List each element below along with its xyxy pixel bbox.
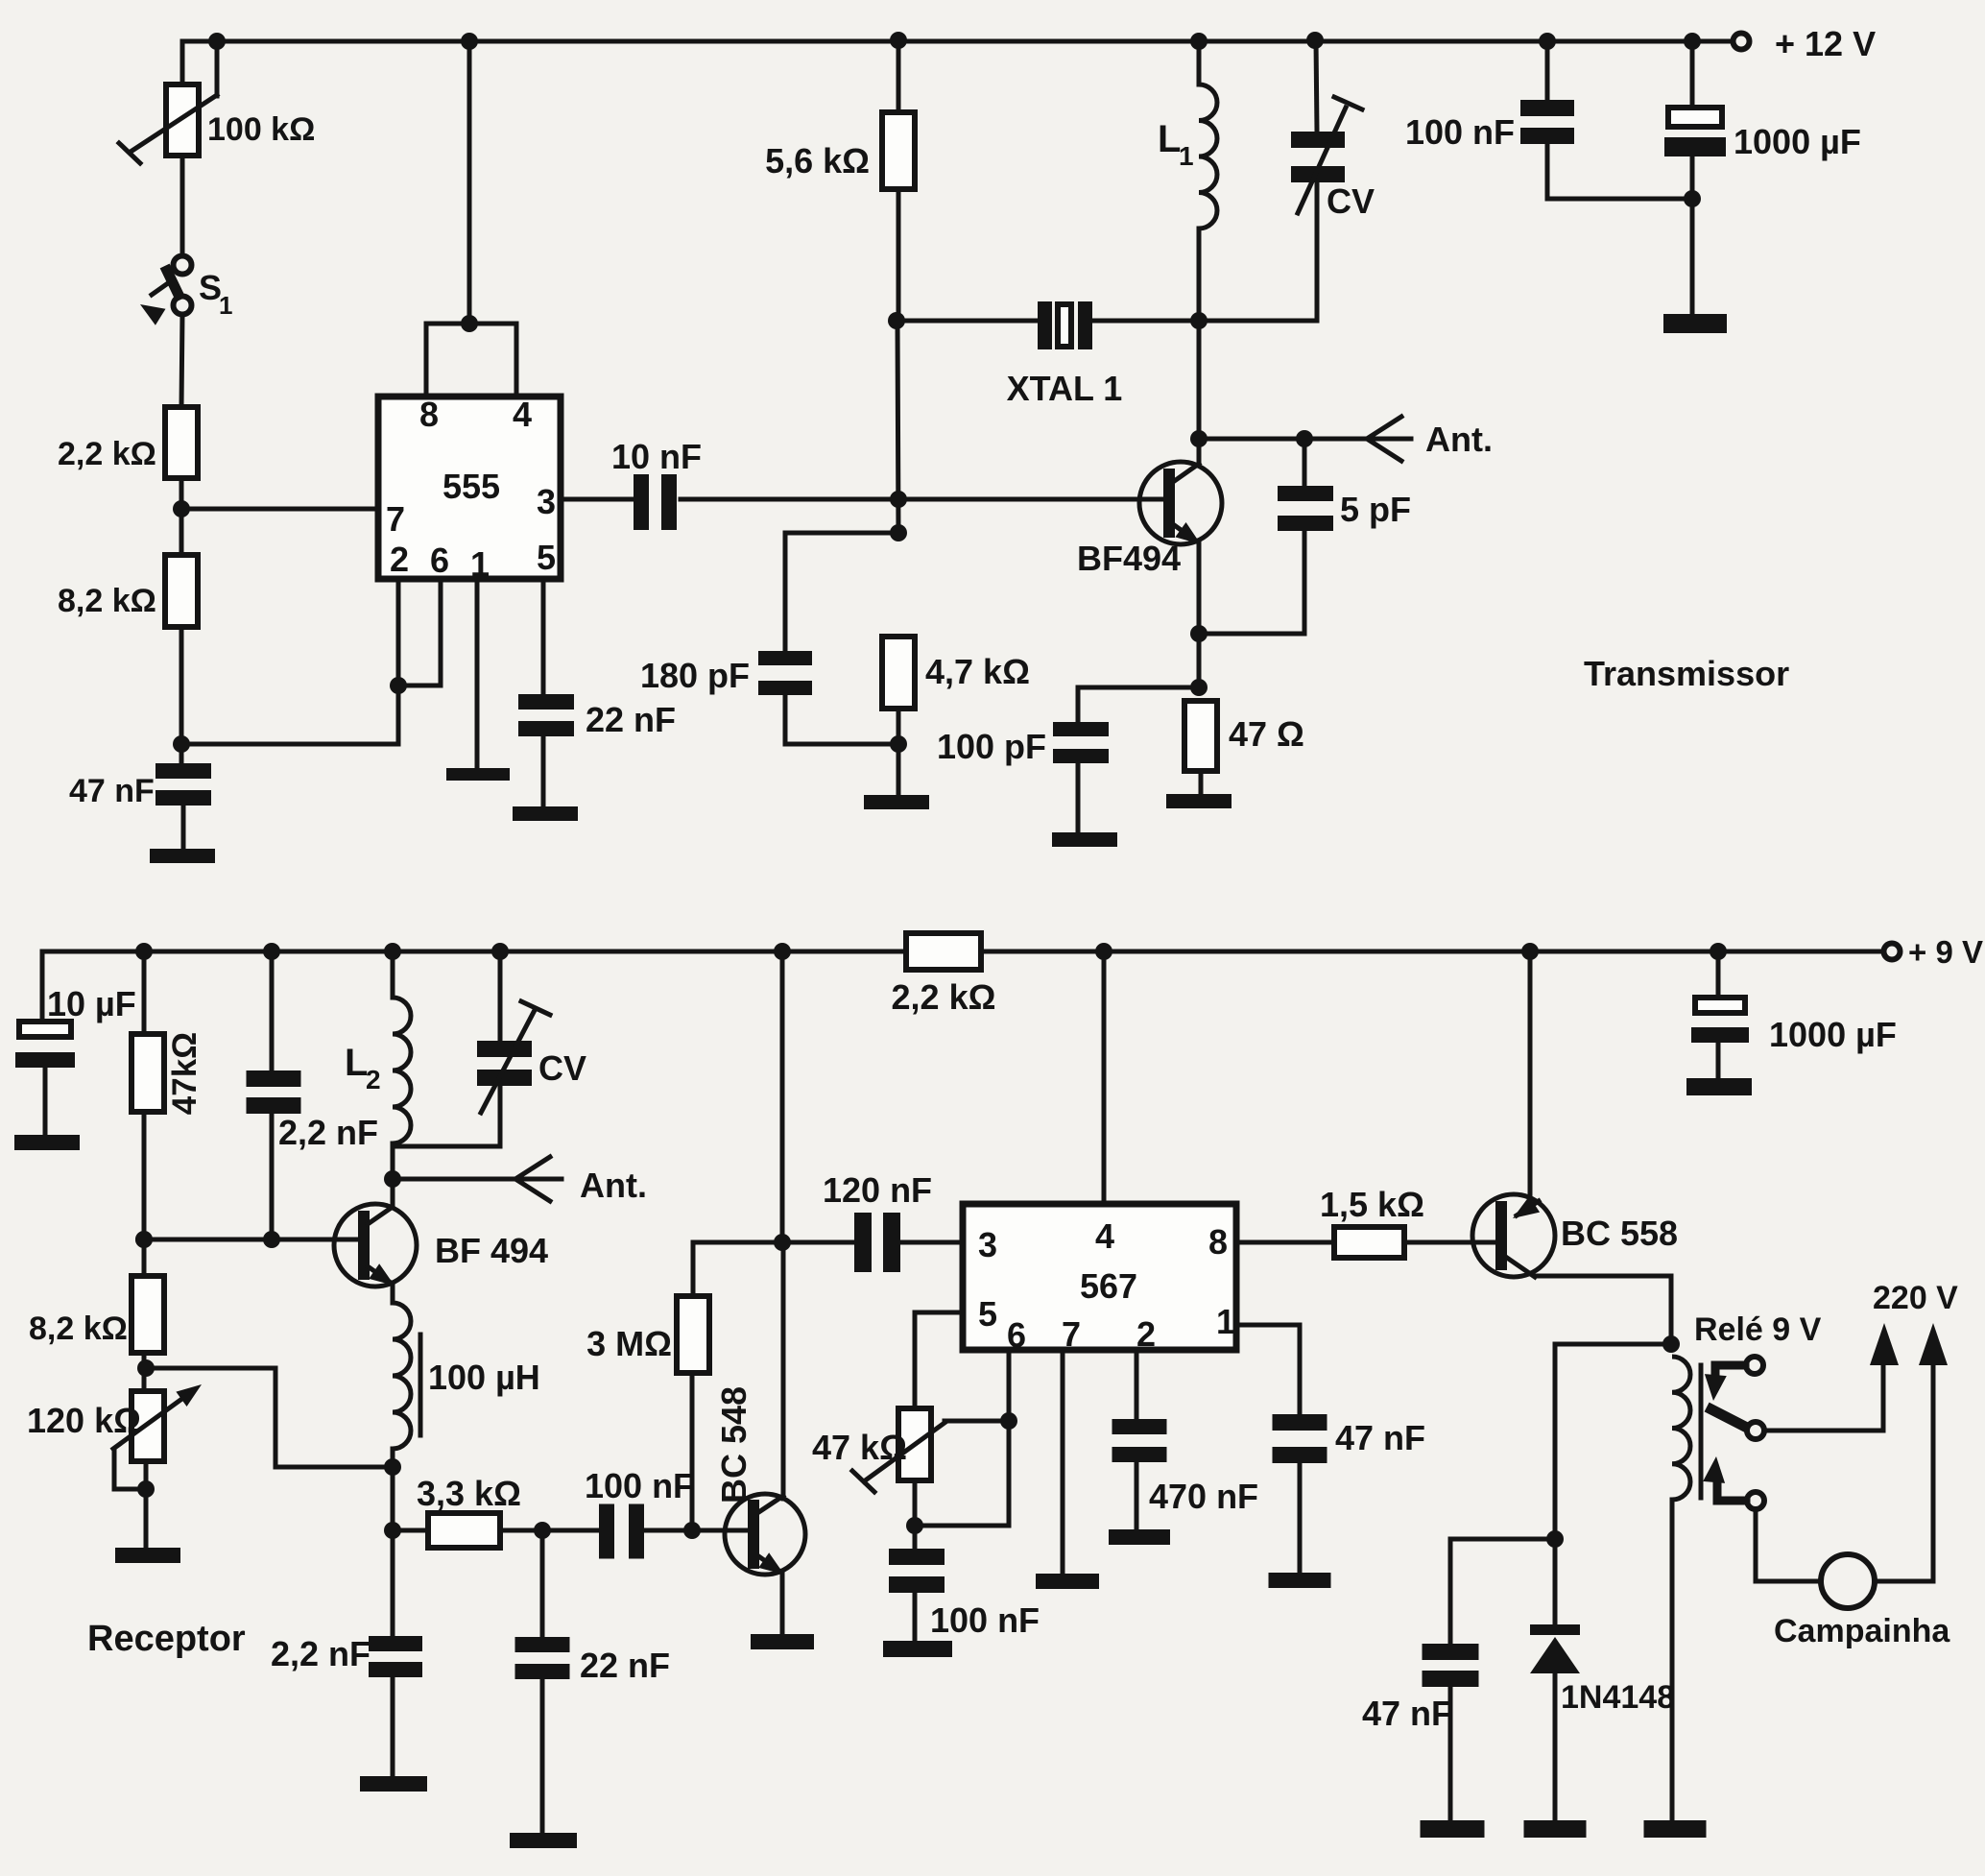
- label 220 V: [1873, 1280, 1958, 1316]
- wire 47R to ground: [1199, 771, 1204, 794]
- resistor 2,2 kΩ: [165, 407, 198, 478]
- wire rail to 10uF: [40, 951, 45, 1022]
- label 1000 µF rx: [1769, 1015, 1897, 1054]
- resistor 47 Ω: [1184, 701, 1217, 771]
- label 180 pF: [640, 656, 750, 695]
- ground 470nF: [1109, 1529, 1170, 1545]
- node base-8.2k: [135, 1231, 153, 1248]
- svg-text:5 pF: 5 pF: [1340, 490, 1411, 529]
- svg-text:100 pF: 100 pF: [937, 727, 1046, 766]
- wire emitter 558: [1528, 951, 1533, 1196]
- wire rail to 1000uF rx: [1716, 951, 1721, 998]
- wire collector 548: [781, 1242, 786, 1499]
- svg-text:100 µH: 100 µH: [428, 1358, 540, 1397]
- svg-text:4: 4: [1095, 1216, 1114, 1256]
- label XTAL 1: [1007, 369, 1123, 408]
- node base-47k: [135, 1231, 153, 1248]
- pin 5 label: [537, 538, 556, 577]
- node 3.3k junction: [384, 1522, 401, 1539]
- wire +12V rail: [182, 39, 1734, 44]
- svg-text:XTAL 1: XTAL 1: [1007, 369, 1123, 408]
- wire 3.3k left: [393, 1528, 428, 1533]
- ground pin 1: [446, 768, 510, 781]
- node base-2.2nF: [263, 1231, 280, 1248]
- pin 7 label: [386, 499, 405, 539]
- label 2,2 kΩ: [58, 436, 156, 472]
- label 100 nF coupling: [585, 1466, 694, 1505]
- node 47nF junction: [173, 735, 190, 753]
- svg-text:2: 2: [1136, 1314, 1156, 1354]
- label L2: [345, 1042, 381, 1094]
- node 120k wiper: [137, 1480, 155, 1498]
- wire CV down: [1199, 182, 1317, 321]
- pin 4: [513, 395, 532, 434]
- svg-text:2,2 kΩ: 2,2 kΩ: [892, 977, 996, 1017]
- node ant-5pF: [1296, 430, 1313, 447]
- label +9V: [1908, 934, 1983, 970]
- label 22 nF rx: [580, 1646, 670, 1685]
- ground 22nF rx: [510, 1833, 577, 1848]
- wire collector 558: [1536, 1276, 1671, 1344]
- svg-text:Relé 9 V: Relé 9 V: [1694, 1311, 1822, 1348]
- node rail-1000uF: [1684, 33, 1701, 50]
- node L1-xtal-cv: [1190, 312, 1208, 329]
- svg-text:2: 2: [390, 540, 409, 579]
- wire emitter down: [1197, 543, 1202, 687]
- label 1000 µF tx: [1734, 122, 1861, 161]
- node rail-L2: [384, 943, 401, 960]
- label 8,2 kΩ: [58, 583, 156, 619]
- wire pin 2: [181, 579, 398, 744]
- svg-text:1: 1: [1179, 141, 1194, 171]
- capacitor 47 nF pin1: [1273, 1414, 1327, 1463]
- svg-text:1: 1: [470, 544, 490, 584]
- ground pin7: [1036, 1574, 1099, 1589]
- wire pin 1 567: [1236, 1325, 1300, 1414]
- label 2,2 nF rx-bottom: [271, 1634, 371, 1673]
- svg-text:L: L: [345, 1042, 368, 1084]
- label 1,5 kΩ: [1320, 1185, 1424, 1224]
- node base548-3M: [683, 1522, 701, 1539]
- wire 47nFp1 to ground: [1298, 1463, 1303, 1573]
- resistor 2,2 kΩ series: [906, 933, 981, 970]
- svg-text:47 nF: 47 nF: [69, 773, 155, 809]
- node pot47k bottom: [906, 1517, 923, 1534]
- inductor 100 µH: [393, 1303, 420, 1449]
- ground 2.2nF rx: [360, 1776, 427, 1792]
- wire 47nFrel to ground: [1448, 1687, 1453, 1820]
- resistor 4,7 kΩ: [882, 637, 915, 709]
- label 10 µF: [47, 984, 136, 1023]
- op-amp U2 567 box: [963, 1204, 1236, 1350]
- capacitor 180 pF: [758, 651, 812, 695]
- node elbow junction: [384, 1458, 401, 1476]
- wire 22nF down: [540, 1530, 545, 1637]
- capacitor 22 nF rx: [515, 1637, 570, 1679]
- svg-text:47 Ω: 47 Ω: [1229, 714, 1304, 754]
- node rail-5.6k: [890, 32, 907, 49]
- label L1: [1158, 118, 1194, 171]
- ground 120k: [115, 1548, 180, 1563]
- resistor 3,3 kΩ: [428, 1513, 500, 1548]
- wire bell to 220V: [1875, 1344, 1933, 1581]
- wire 22nF to ground: [541, 736, 546, 806]
- node rail-555: [461, 33, 478, 50]
- wire 3M down: [690, 1373, 695, 1530]
- ground 1000uF tx: [1663, 314, 1727, 333]
- wire 5.6k to xtal node: [897, 189, 901, 323]
- wire +9V rail left: [42, 950, 906, 954]
- svg-text:3: 3: [978, 1225, 997, 1264]
- ground 22nF: [513, 806, 578, 821]
- svg-text:22 nF: 22 nF: [586, 700, 676, 739]
- wire pin 6: [398, 579, 441, 685]
- wire pin 5 567: [915, 1312, 963, 1408]
- wire L2 to CV: [393, 1144, 500, 1149]
- wire 120nF lead: [782, 1240, 854, 1245]
- label 100 kΩ: [207, 111, 315, 148]
- svg-text:555: 555: [442, 467, 500, 506]
- label Ant. rx: [580, 1166, 647, 1205]
- label 47 nF pin1: [1335, 1418, 1425, 1457]
- svg-text:3,3 kΩ: 3,3 kΩ: [417, 1474, 521, 1513]
- ground 47nF relay: [1421, 1820, 1485, 1838]
- wire S1 to 2.2k: [181, 314, 182, 407]
- relay coil Relé 9V: [1672, 1357, 1701, 1500]
- label 100 nF 47k: [930, 1600, 1040, 1640]
- wire base to 8.2k: [142, 1239, 147, 1276]
- label 5,6 kΩ: [765, 141, 870, 180]
- potentiometer 120 kΩ: [113, 1384, 202, 1489]
- potentiometer 100 kΩ: [119, 84, 217, 163]
- wire 100pF to ground: [1076, 763, 1081, 832]
- node output junction: [890, 491, 907, 508]
- wire to 180pF: [785, 533, 898, 651]
- wire antenna lead rx: [393, 1177, 562, 1182]
- relay armature: [1711, 1409, 1764, 1439]
- wire rail to L2: [391, 951, 395, 998]
- wire xtal node down: [897, 323, 898, 533]
- svg-text:100 nF: 100 nF: [1405, 112, 1515, 152]
- pin 5 567: [978, 1294, 997, 1334]
- node emitter-100pF-47R: [1190, 679, 1208, 696]
- ground 10uF: [14, 1135, 80, 1150]
- svg-text:5: 5: [978, 1294, 997, 1334]
- wire to 100pF: [1078, 687, 1199, 722]
- node xtal left: [888, 312, 905, 329]
- label BF494 tx: [1077, 539, 1181, 578]
- node rail-2.2nF: [263, 943, 280, 960]
- label 47 nF: [69, 773, 155, 809]
- wire rail to 5.6k: [897, 41, 901, 112]
- svg-text:180 pF: 180 pF: [640, 656, 750, 695]
- node 555 bridge: [461, 315, 478, 332]
- wire 2.2k-8.2k: [179, 478, 184, 555]
- wire 100nF to base548: [644, 1528, 749, 1533]
- wire pin 4: [1102, 951, 1107, 1204]
- label S1: [199, 268, 232, 320]
- wire pot to 100nF: [913, 1480, 918, 1549]
- wire rail to 100nF: [1545, 41, 1550, 100]
- wire diode branch: [1555, 1344, 1671, 1625]
- inductor L2: [393, 998, 411, 1143]
- switch S1: [140, 256, 192, 325]
- pin 2 label: [390, 540, 409, 579]
- svg-text:5: 5: [537, 538, 556, 577]
- svg-text:2,2 nF: 2,2 nF: [278, 1113, 378, 1152]
- wire 100nF down: [1547, 144, 1692, 199]
- node output-180pF: [890, 524, 907, 541]
- label 47 kΩ: [812, 1428, 907, 1467]
- node rail-BC548: [774, 943, 791, 960]
- label 470 nF: [1149, 1477, 1258, 1516]
- svg-text:220 V: 220 V: [1873, 1280, 1958, 1316]
- svg-text:1N4148: 1N4148: [1561, 1679, 1675, 1716]
- pin 3 567: [978, 1225, 997, 1264]
- svg-text:4,7 kΩ: 4,7 kΩ: [925, 652, 1030, 691]
- node 4.7k bottom: [890, 735, 907, 753]
- relay contact NC: [1705, 1357, 1763, 1401]
- node 120nF junction: [774, 1234, 791, 1251]
- capacitor 1000 µF tx: [1664, 108, 1726, 156]
- capacitor 100 pF: [1053, 722, 1109, 763]
- wire NO to bell: [1756, 1509, 1821, 1581]
- label CV tx: [1327, 181, 1375, 221]
- wire pin 1: [475, 579, 480, 768]
- label 100 pF: [937, 727, 1046, 766]
- capacitor 120 nF: [854, 1213, 900, 1272]
- svg-text:BF494: BF494: [1077, 539, 1181, 578]
- wire xtal right lead: [1092, 319, 1199, 324]
- transistor Q4 BC 558: [1472, 1194, 1555, 1277]
- wire rail to L1: [1197, 41, 1202, 84]
- label Ant. tx: [1425, 420, 1493, 459]
- svg-text:CV: CV: [1327, 181, 1375, 221]
- pin 4 567: [1095, 1216, 1114, 1256]
- svg-text:10 nF: 10 nF: [611, 437, 702, 476]
- resistor 5,6 kΩ: [882, 112, 915, 189]
- wire pin 7 567: [1061, 1350, 1065, 1574]
- label BF 494 rx: [435, 1231, 548, 1270]
- svg-text:2,2 kΩ: 2,2 kΩ: [58, 436, 156, 472]
- svg-text:470 nF: 470 nF: [1149, 1477, 1258, 1516]
- capacitor 47 nF relay: [1423, 1644, 1479, 1687]
- arrow 220V left: [1870, 1323, 1899, 1365]
- ground 100pF: [1052, 832, 1117, 847]
- label 22 nF tx: [586, 700, 676, 739]
- svg-text:BF 494: BF 494: [435, 1231, 548, 1270]
- node rail-1000uF rx: [1710, 943, 1727, 960]
- label 47 Ω: [1229, 714, 1304, 754]
- wire 8.2k to elbow: [142, 1353, 147, 1391]
- wire base line: [144, 1238, 359, 1242]
- svg-text:+ 9 V: + 9 V: [1908, 934, 1983, 970]
- label CV rx: [538, 1048, 586, 1088]
- label 2,2 nF rx-top: [278, 1113, 378, 1152]
- node antenna rx: [384, 1170, 401, 1188]
- label 555: [442, 467, 500, 506]
- wire pin 5: [541, 579, 546, 694]
- capacitor 100 nF tx: [1520, 100, 1574, 144]
- svg-text:22 nF: 22 nF: [580, 1646, 670, 1685]
- wire 4.7k to ground: [897, 709, 901, 795]
- node pin7 junction: [173, 500, 190, 517]
- svg-text:3 MΩ: 3 MΩ: [586, 1324, 672, 1363]
- wire pot feed: [180, 41, 185, 84]
- resistor 3 MΩ: [677, 1296, 709, 1373]
- wire 47k to base: [142, 1112, 147, 1239]
- node emitter-5pF: [1190, 625, 1208, 642]
- ground 47nF pin1: [1269, 1573, 1331, 1588]
- transistor Q1 BF494 tx: [1139, 462, 1222, 544]
- wire rail to 555 bridge: [467, 41, 472, 324]
- svg-text:47 kΩ: 47 kΩ: [812, 1428, 907, 1467]
- svg-text:BC 558: BC 558: [1561, 1214, 1678, 1253]
- capacitor 47 nF: [155, 763, 211, 806]
- node rail-pot wiper: [208, 33, 226, 50]
- svg-text:10 µF: 10 µF: [47, 984, 136, 1023]
- node 1000uF bottom: [1684, 190, 1701, 207]
- svg-text:8: 8: [1208, 1222, 1228, 1262]
- terminal +12V: [1734, 34, 1750, 50]
- label 120 kΩ: [27, 1401, 141, 1440]
- svg-text:2: 2: [366, 1065, 381, 1094]
- wire 2.2nFb to ground: [391, 1677, 395, 1776]
- wire L2 to collector: [391, 1143, 395, 1206]
- node diode-47nF: [1546, 1530, 1564, 1548]
- wire 2.2nF to base: [270, 1114, 275, 1239]
- svg-text:120 nF: 120 nF: [823, 1170, 932, 1210]
- wire node to ant: [1197, 321, 1202, 462]
- wire xtal left lead: [897, 319, 1038, 324]
- label 8,2 kΩ rx: [29, 1311, 128, 1347]
- arrow 220V right: [1919, 1323, 1948, 1365]
- wire 100uH down: [391, 1449, 395, 1636]
- wire CVrx down: [498, 1086, 503, 1146]
- svg-text:567: 567: [1080, 1266, 1137, 1306]
- capacitor 1000 µF rx: [1691, 998, 1749, 1043]
- capacitor 100 nF 47k: [889, 1549, 945, 1593]
- wire 1.5k to base558: [1404, 1240, 1496, 1245]
- label BC 548: [714, 1386, 753, 1503]
- label Transmissor: [1584, 654, 1789, 693]
- wire emitter to 100uH: [391, 1285, 395, 1303]
- svg-text:Ant.: Ant.: [1425, 420, 1493, 459]
- ground diode: [1524, 1820, 1587, 1838]
- svg-text:8,2 kΩ: 8,2 kΩ: [29, 1311, 128, 1347]
- label Campainha: [1774, 1613, 1950, 1649]
- resistor 8,2 kΩ: [165, 555, 198, 627]
- label 3 MΩ: [586, 1324, 672, 1363]
- pin 1 567: [1216, 1302, 1235, 1341]
- wire rail to 120nF node: [780, 951, 785, 1242]
- bell Campainha: [1821, 1554, 1875, 1608]
- wire antenna lead: [1199, 437, 1411, 442]
- svg-text:Ant.: Ant.: [580, 1166, 647, 1205]
- label 5 pF: [1340, 490, 1411, 529]
- capacitor 100 nF coupling: [599, 1504, 644, 1559]
- label 100 nF tx: [1405, 112, 1515, 152]
- resistor 1,5 kΩ: [1334, 1227, 1404, 1258]
- wire emitter 548: [780, 1574, 785, 1634]
- svg-text:Transmissor: Transmissor: [1584, 654, 1789, 693]
- wire rail to 47k: [142, 951, 147, 1034]
- wire 1000uFrx to ground: [1716, 1043, 1721, 1078]
- svg-text:2,2 nF: 2,2 nF: [271, 1634, 371, 1673]
- wire 3.3k right: [500, 1528, 599, 1533]
- svg-text:8,2 kΩ: 8,2 kΩ: [58, 583, 156, 619]
- wire 8.2k to 47nF: [179, 627, 184, 763]
- wire pin 3: [561, 497, 634, 502]
- svg-text:8: 8: [419, 395, 439, 434]
- node relay top: [1662, 1335, 1680, 1353]
- ground 47R: [1166, 794, 1232, 808]
- relay contact NO: [1703, 1456, 1764, 1509]
- wire 120k to ground: [144, 1461, 149, 1548]
- pin 2 567: [1136, 1314, 1156, 1354]
- wire 22nF to ground: [540, 1679, 545, 1833]
- label 100 µH: [428, 1358, 540, 1397]
- capacitor 22 nF: [518, 694, 574, 736]
- wire 555 pins 8-4 bridge: [426, 324, 516, 397]
- wire 180pF bottom: [785, 695, 898, 744]
- ground relay coil: [1644, 1820, 1707, 1838]
- wire 100nF47k to ground: [913, 1593, 918, 1641]
- wire 3M up: [693, 1242, 783, 1296]
- node 8.2k-120k: [137, 1359, 155, 1377]
- svg-text:100 nF: 100 nF: [585, 1466, 694, 1505]
- label Receptor: [87, 1619, 246, 1659]
- ground BC548: [751, 1634, 814, 1649]
- crystal XTAL 1: [1038, 301, 1092, 349]
- antenna arrow tx: [1367, 417, 1401, 461]
- node rail-CV: [1306, 32, 1324, 49]
- label 10 nF: [611, 437, 702, 476]
- capacitor 2,2 nF rx-bottom: [369, 1636, 422, 1677]
- wire 470nF to ground: [1135, 1462, 1139, 1529]
- svg-text:47kΩ: 47kΩ: [166, 1032, 203, 1115]
- svg-text:7: 7: [386, 499, 405, 539]
- label 2,2 kΩ rx: [892, 977, 996, 1017]
- inductor L1: [1199, 84, 1217, 228]
- pin 8: [419, 395, 439, 434]
- ground 47nF: [150, 849, 215, 863]
- node rail-CVrx: [491, 943, 509, 960]
- ground 4.7k: [864, 795, 929, 809]
- op-amp U1 555 box: [378, 397, 561, 579]
- diode D1 1N4148: [1530, 1624, 1580, 1673]
- label 47 nF relay: [1362, 1694, 1452, 1733]
- wire rail to 1000uF: [1690, 41, 1695, 108]
- capacitor 5 pF: [1278, 486, 1333, 531]
- label Relé 9 V: [1694, 1311, 1822, 1348]
- wire 120nF to pin3: [900, 1240, 963, 1245]
- label BC 558: [1561, 1214, 1678, 1253]
- wire pot to S1: [180, 156, 185, 255]
- node rail-100nF: [1539, 33, 1556, 50]
- pin 6 label: [430, 541, 449, 580]
- node rail-L1: [1190, 33, 1208, 50]
- ground 100nF 47k: [883, 1641, 952, 1657]
- wire 47nF relay branch: [1450, 1539, 1555, 1644]
- wire L1 to node: [1197, 228, 1202, 321]
- node rail-558: [1521, 943, 1539, 960]
- svg-text:47 nF: 47 nF: [1335, 1418, 1425, 1457]
- svg-text:Receptor: Receptor: [87, 1619, 246, 1659]
- wire wiper stub: [215, 41, 220, 96]
- wire 10uF to ground: [43, 1068, 48, 1135]
- node rail-pin4: [1095, 943, 1112, 960]
